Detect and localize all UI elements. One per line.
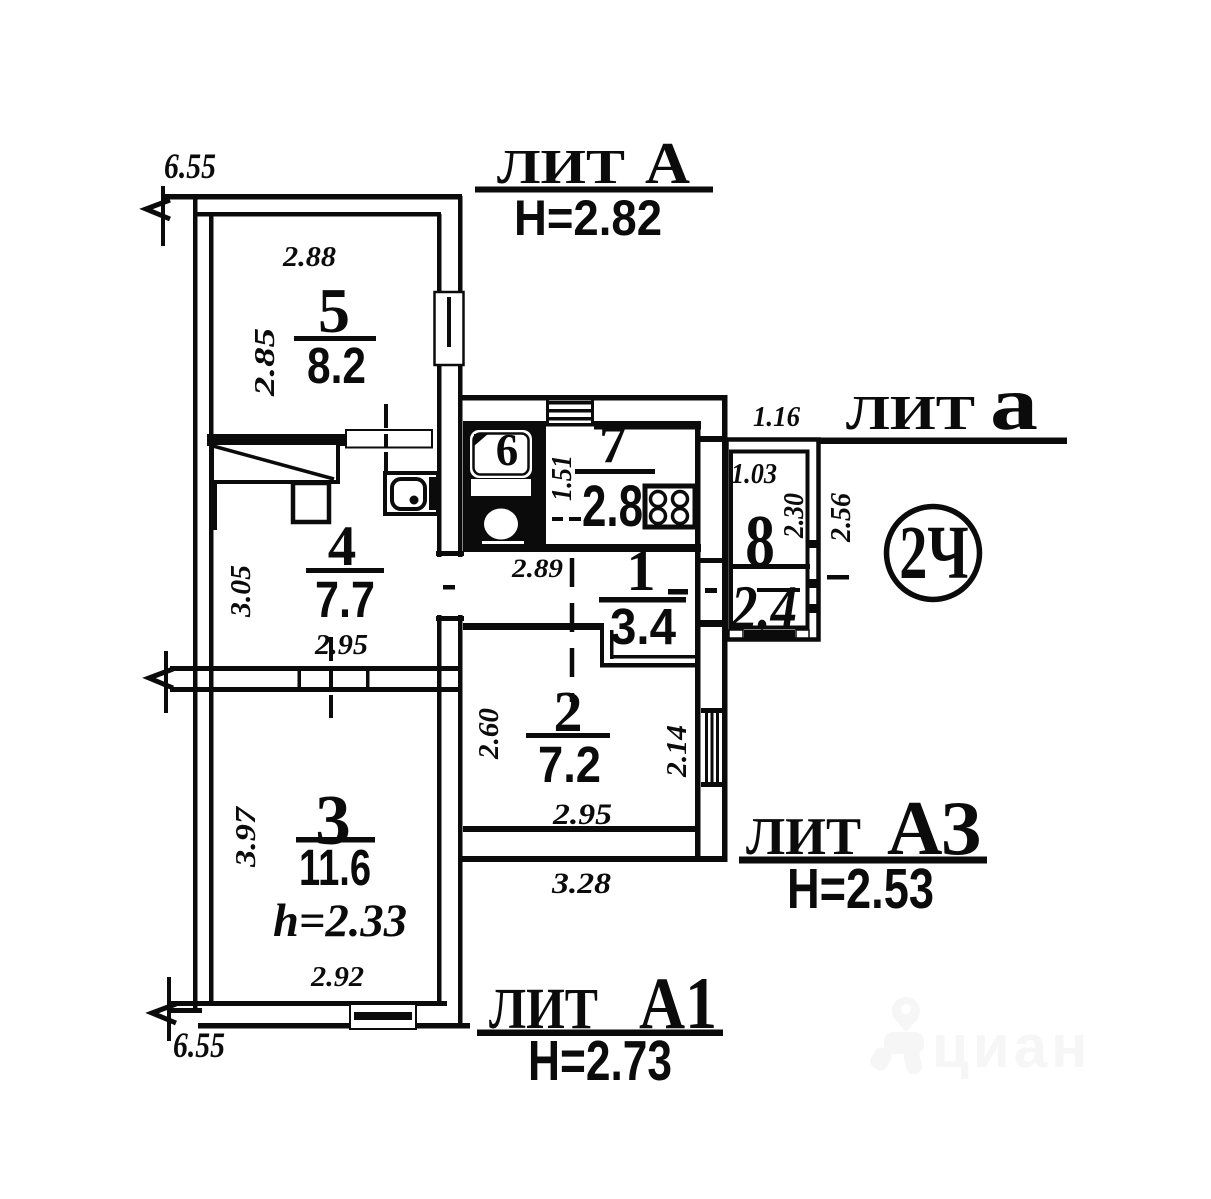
wall between rooms 4 and 3 bottom line xyxy=(170,687,459,692)
veranda bottom white boxes xyxy=(729,630,743,638)
svg-text:1: 1 xyxy=(627,538,656,603)
wall between rooms 4 and 3 top line xyxy=(170,666,459,671)
right exterior wall outer line xyxy=(722,395,728,862)
wall between rooms 1 and 2 xyxy=(463,623,603,630)
svg-text:3.4: 3.4 xyxy=(610,598,677,655)
wall between rooms 5 and 4 xyxy=(207,434,346,446)
svg-text:2.14: 2.14 xyxy=(662,725,693,778)
svg-text:2.56: 2.56 xyxy=(826,493,857,543)
svg-text:h=2.33: h=2.33 xyxy=(273,895,407,947)
node circle 2Ch xyxy=(887,507,980,600)
svg-text:1.16: 1.16 xyxy=(753,402,800,433)
svg-text:1.51: 1.51 xyxy=(547,455,578,501)
svg-text:6.55: 6.55 xyxy=(164,146,216,186)
step notch room 1 outer xyxy=(600,623,604,667)
window in bottom exterior wall room 3 xyxy=(350,1004,416,1029)
svg-text:2.85: 2.85 xyxy=(250,328,281,397)
door centerline dashes 4/3 xyxy=(329,637,333,661)
svg-text:2Ч: 2Ч xyxy=(899,511,968,595)
svg-text:Н=2.53: Н=2.53 xyxy=(787,857,934,921)
svg-text:2.89: 2.89 xyxy=(511,554,563,583)
stove room 4 rectangle with diagonal xyxy=(212,443,338,482)
door opening room 4 to room 1 xyxy=(435,557,464,615)
svg-text:Н=2.82: Н=2.82 xyxy=(514,190,662,246)
wet zone top inner line left xyxy=(463,421,546,426)
veranda divider 8 / 2.4 xyxy=(729,564,810,569)
strike line over 2.4 xyxy=(757,588,800,592)
door dash room 1 to veranda xyxy=(705,588,717,593)
svg-text:ЛИТ: ЛИТ xyxy=(497,139,625,194)
wire top exterior wall outer line (lit A) xyxy=(163,194,462,200)
svg-text:2.92: 2.92 xyxy=(310,962,364,993)
svg-text:2.60: 2.60 xyxy=(474,708,505,760)
svg-text:6.55: 6.55 xyxy=(173,1025,225,1065)
room 6 black box (bathroom) xyxy=(463,425,546,552)
svg-text:2.95: 2.95 xyxy=(552,798,612,831)
svg-text:5: 5 xyxy=(318,275,350,346)
room 2 bottom wall inner line xyxy=(463,826,700,832)
stove room 4 lower square xyxy=(293,483,329,522)
wire left exterior wall outer line xyxy=(193,194,198,1013)
sink room 4 xyxy=(385,473,438,514)
svg-text:2.4: 2.4 xyxy=(730,572,797,643)
svg-text:3.97: 3.97 xyxy=(231,806,262,868)
wet zone top outer line xyxy=(458,395,723,401)
svg-text:Н=2.73: Н=2.73 xyxy=(528,1029,672,1093)
svg-text:ЛИТ: ЛИТ xyxy=(846,385,975,440)
veranda right wall window dividers xyxy=(806,540,818,548)
dimension tick top left xyxy=(161,186,165,246)
toilet room 6 xyxy=(484,509,518,540)
wire middle vertical wall outer line xyxy=(458,196,463,1028)
dimension tick bottom left xyxy=(167,977,171,1041)
window room 2 right wall xyxy=(701,708,722,713)
dimension dash right of veranda xyxy=(827,575,849,580)
svg-text:3.28: 3.28 xyxy=(551,867,611,900)
room 7 top thick wall xyxy=(594,421,701,430)
transom ladder above room 6/7 xyxy=(546,399,549,426)
room 2 bottom wall outer line xyxy=(458,856,724,862)
veranda bottom black bar xyxy=(744,630,795,639)
door centerline dashed rooms 1/2 xyxy=(570,558,575,702)
svg-text:3.05: 3.05 xyxy=(226,565,257,618)
svg-text:циан: циан xyxy=(932,1013,1091,1080)
door centerline dash 5/4 xyxy=(384,404,388,428)
wire top exterior wall inner line xyxy=(196,212,441,217)
svg-text:7: 7 xyxy=(599,413,627,475)
svg-text:7.2: 7.2 xyxy=(538,736,601,793)
bottom thick wall of rooms 6/7 xyxy=(463,544,701,552)
window in middle vertical wall (room 5) xyxy=(435,292,464,365)
divider above door to veranda xyxy=(700,558,722,563)
svg-text:1.03: 1.03 xyxy=(731,459,777,490)
svg-text:2.30: 2.30 xyxy=(779,493,810,539)
wire bottom exterior wall inner line xyxy=(171,1001,447,1006)
wire middle vertical wall inner line (rooms 5/4/3 right) xyxy=(437,214,442,1004)
step notch room 1 inner xyxy=(610,630,614,659)
veranda outer rectangle xyxy=(727,440,819,640)
dimension leader dashes left of 2.8 xyxy=(552,517,563,521)
svg-text:2.8: 2.8 xyxy=(582,474,643,539)
stove room 7 (4 burners) xyxy=(645,486,695,527)
svg-text:7.7: 7.7 xyxy=(315,571,375,628)
door opening in wall 5/4 xyxy=(346,430,432,448)
door opening in wall 4/3 xyxy=(298,668,302,690)
right exterior wall inner line xyxy=(695,421,701,856)
svg-text:6: 6 xyxy=(496,425,519,475)
washbasin room 6 xyxy=(471,479,531,496)
wire bottom exterior wall outer step left xyxy=(168,1008,202,1013)
wire left exterior wall inner line xyxy=(209,212,214,1004)
veranda inner rectangle xyxy=(731,452,808,628)
svg-text:а: а xyxy=(990,362,1038,446)
svg-text:8: 8 xyxy=(745,501,775,583)
wire bottom exterior wall outer line xyxy=(198,1023,470,1029)
svg-text:11.6: 11.6 xyxy=(299,839,371,896)
svg-text:8.2: 8.2 xyxy=(307,337,366,394)
wall pilaster left room 4 xyxy=(212,484,217,530)
bathtub room 6 xyxy=(470,430,532,478)
divider veranda top attach xyxy=(700,436,722,442)
svg-text:2.88: 2.88 xyxy=(282,242,336,273)
svg-text:2.95: 2.95 xyxy=(314,630,368,661)
divider below door to veranda xyxy=(700,620,722,627)
watermark cian icon xyxy=(892,997,920,1025)
dimension tick middle left xyxy=(164,651,168,713)
svg-text:А: А xyxy=(645,130,690,196)
